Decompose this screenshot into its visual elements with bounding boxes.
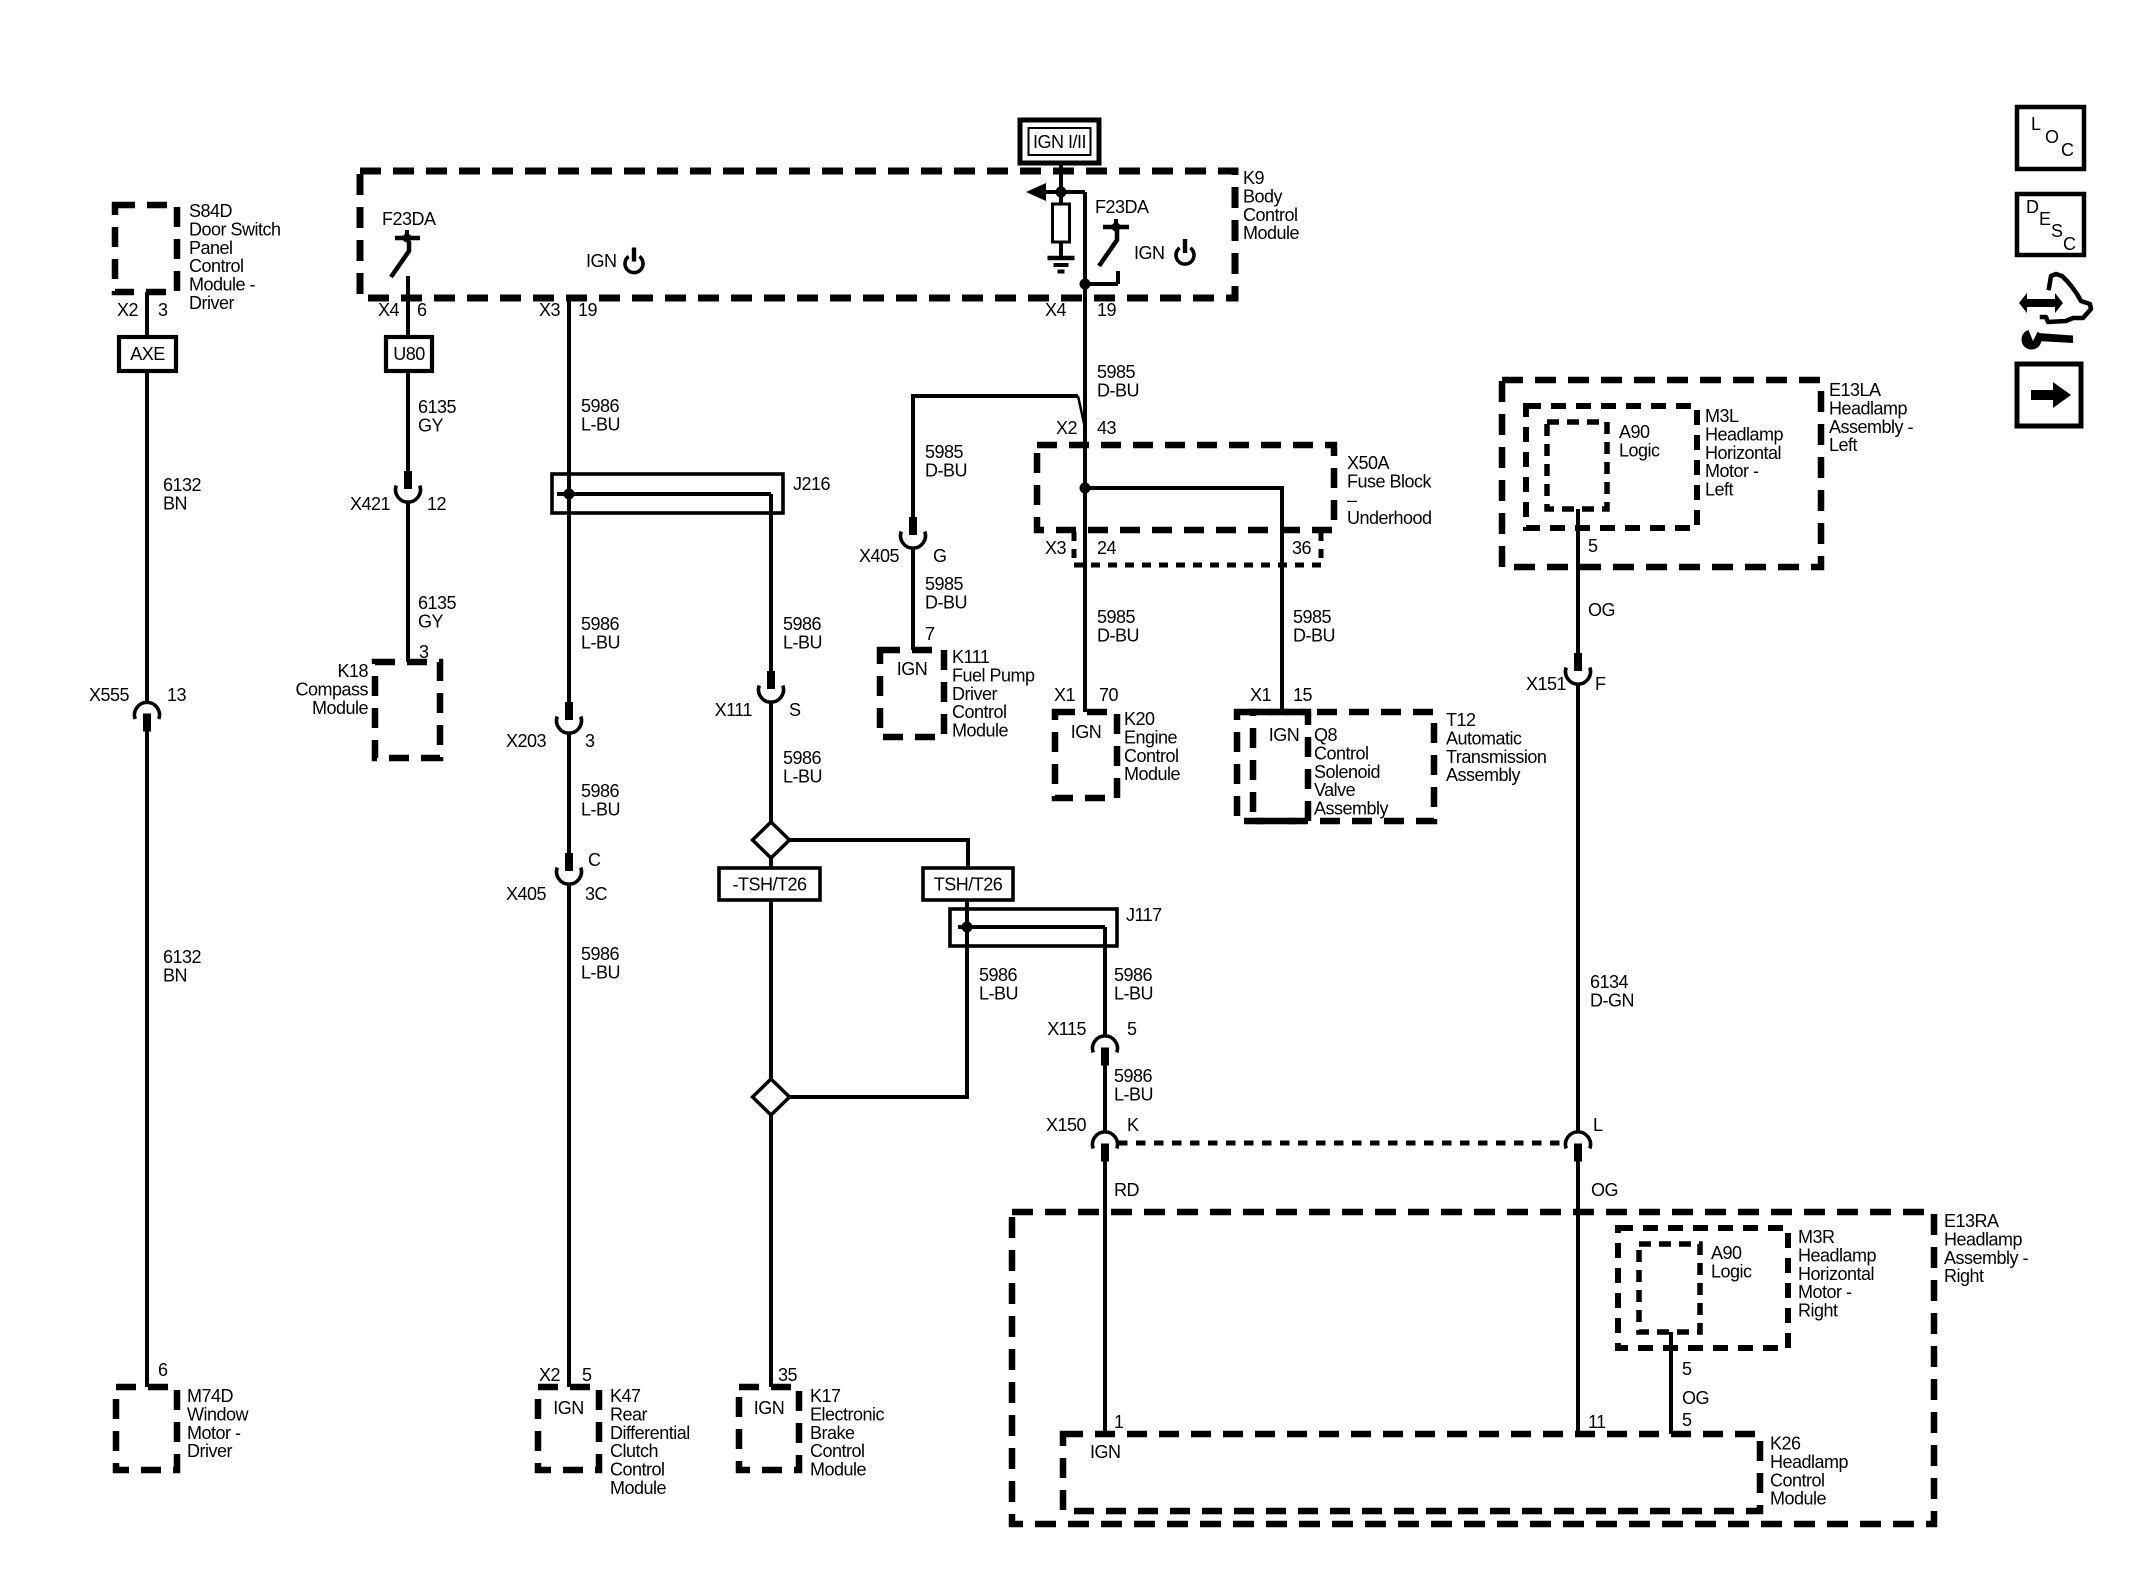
- module E13LA Headlamp Assembly - Left: [1502, 380, 1914, 567]
- wire X421 to K18: [406, 502, 410, 662]
- value label circuit 5986 L-BU: [783, 748, 822, 786]
- fuse inside K9: [1053, 192, 1070, 257]
- svg-text:E13RAHeadlampAssembly -Right: E13RAHeadlampAssembly -Right: [1944, 1211, 2029, 1286]
- value label circuit 5986 L-BU: [581, 781, 620, 819]
- pin label 7 of K111: [925, 624, 935, 644]
- svg-text:19: 19: [578, 300, 598, 320]
- svg-text:6: 6: [158, 1360, 168, 1380]
- svg-text:5: 5: [1682, 1410, 1692, 1430]
- value label circuit 6132 BN: [163, 475, 202, 513]
- svg-text:5985D-BU: 5985D-BU: [1097, 362, 1139, 400]
- value label circuit 5986 L-BU: [1114, 1066, 1153, 1104]
- wire fuse block X3-24 to K20: [1083, 488, 1087, 712]
- svg-text:X115: X115: [1047, 1019, 1086, 1039]
- svg-text:L: L: [1593, 1115, 1603, 1135]
- svg-text:X1: X1: [1250, 685, 1272, 705]
- node IGN I/II power tag: [1020, 120, 1099, 163]
- svg-text:U80: U80: [393, 344, 425, 364]
- svg-text:3C: 3C: [585, 884, 608, 904]
- svg-text:5: 5: [1588, 536, 1598, 556]
- connector X111 pin S: [715, 671, 801, 720]
- svg-text:M3LHeadlampHorizontalMotor -Le: M3LHeadlampHorizontalMotor -Left: [1705, 406, 1784, 500]
- module K47 Rear Differential Clutch Control Module: [538, 1386, 690, 1498]
- connector X405 pin 3C: [506, 853, 608, 904]
- module A90 Logic right: [1639, 1243, 1752, 1332]
- wire K9 X4-19 to fuse block: [1083, 284, 1087, 488]
- svg-text:5986L-BU: 5986L-BU: [783, 614, 822, 652]
- svg-text:X2: X2: [1056, 418, 1078, 438]
- svg-text:J117: J117: [1126, 905, 1162, 925]
- node splice diamond upper: [753, 822, 790, 858]
- wire S84D to AXE: [145, 292, 149, 337]
- svg-text:OG: OG: [1682, 1388, 1709, 1408]
- svg-text:1: 1: [1114, 1412, 1124, 1432]
- module Q8 connector box: [1237, 712, 1308, 821]
- svg-text:X1: X1: [1054, 685, 1076, 705]
- pin label 1 of K26: [1114, 1412, 1124, 1432]
- svg-text:X111: X111: [715, 700, 753, 720]
- svg-text:S: S: [789, 700, 801, 720]
- svg-text:35: 35: [778, 1365, 798, 1385]
- splice J216: [552, 474, 831, 513]
- svg-text:C: C: [2061, 140, 2074, 160]
- svg-text:IGN: IGN: [1134, 243, 1165, 263]
- svg-text:6: 6: [417, 300, 427, 320]
- svg-text:IGN: IGN: [553, 1398, 584, 1418]
- svg-text:X203: X203: [506, 731, 547, 751]
- svg-text:K: K: [1127, 1115, 1139, 1135]
- switch F23DA right: [1095, 197, 1149, 284]
- svg-text:5: 5: [1682, 1359, 1692, 1379]
- svg-text:X4: X4: [1045, 300, 1067, 320]
- svg-text:T12AutomaticTransmissionAssemb: T12AutomaticTransmissionAssembly: [1446, 710, 1546, 785]
- svg-text:IGN: IGN: [754, 1398, 785, 1418]
- svg-text:IGN: IGN: [1071, 722, 1102, 742]
- pin label 5 of K26: [1682, 1410, 1692, 1430]
- pin label X4 19 of K9: [1045, 300, 1117, 320]
- svg-text:Module: Module: [312, 698, 369, 718]
- wire X405 to K47: [567, 884, 571, 1387]
- wire K9 X3-19 to J216: [567, 296, 571, 513]
- wire IGN I/II into K9: [1059, 163, 1063, 192]
- connector X150 pin L: [1566, 1115, 1604, 1162]
- svg-text:36: 36: [1292, 538, 1312, 558]
- svg-text:6134D-GN: 6134D-GN: [1590, 972, 1634, 1010]
- svg-text:6132BN: 6132BN: [163, 947, 202, 985]
- value label circuit 6135 GY: [418, 593, 457, 631]
- value label circuit 6132 BN: [163, 947, 202, 985]
- svg-text:5986L-BU: 5986L-BU: [581, 781, 620, 819]
- wire J216 to X203: [567, 474, 571, 702]
- svg-text:D: D: [2026, 197, 2039, 217]
- module K111 Fuel Pump Driver Control Module: [880, 647, 1035, 741]
- svg-text:X4: X4: [378, 300, 400, 320]
- connector X555 pin 13: [89, 685, 187, 732]
- value label circuit 5986 L-BU: [581, 614, 620, 652]
- svg-text:IGN: IGN: [1090, 1442, 1121, 1462]
- wire X111 to splice diamond: [769, 702, 773, 824]
- svg-text:3: 3: [585, 731, 595, 751]
- svg-text:J216: J216: [793, 474, 831, 494]
- svg-text:X151: X151: [1526, 674, 1567, 694]
- wire X150 K to K26 pin 1: [1103, 1162, 1107, 1435]
- value label circuit 5985 D-BU: [1293, 607, 1335, 645]
- pin label X2 3 of S84D: [117, 300, 168, 320]
- svg-text:15: 15: [1293, 685, 1313, 705]
- module A90 Logic left: [1547, 422, 1660, 509]
- wire K9 X4-6 to U80: [406, 276, 410, 337]
- wire -TSH/T26 to diamond lower: [769, 900, 773, 1079]
- svg-text:7: 7: [925, 624, 935, 644]
- pin label 5 of M3L: [1588, 536, 1598, 556]
- node splice diamond lower: [753, 1079, 790, 1115]
- svg-text:70: 70: [1099, 685, 1119, 705]
- svg-text:5985D-BU: 5985D-BU: [1097, 607, 1139, 645]
- value label circuit 5986 L-BU: [783, 614, 822, 652]
- svg-text:X150: X150: [1046, 1115, 1087, 1135]
- wire J117 right leg to X115: [1103, 927, 1107, 1036]
- svg-text:K18: K18: [337, 661, 368, 681]
- connector X203 pin 3: [506, 702, 595, 751]
- svg-text:A90Logic: A90Logic: [1711, 1243, 1752, 1281]
- svg-text:K47RearDifferentialClutchContr: K47RearDifferentialClutchControlModule: [610, 1386, 690, 1498]
- svg-text:K17ElectronicBrakeControlModul: K17ElectronicBrakeControlModule: [810, 1386, 885, 1480]
- svg-text:S: S: [2051, 221, 2063, 241]
- svg-text:OG: OG: [1588, 600, 1615, 620]
- wire U80 to X421: [406, 371, 410, 471]
- wire branch to fuel pump: [913, 396, 1085, 517]
- wire X115 to X150: [1103, 1066, 1107, 1133]
- value label OG: [1591, 1180, 1618, 1200]
- svg-text:5986L-BU: 5986L-BU: [1114, 1066, 1153, 1104]
- pin label 5 of M3R: [1682, 1359, 1692, 1379]
- svg-text:M3RHeadlampHorizontalMotor -Ri: M3RHeadlampHorizontalMotor -Right: [1798, 1227, 1877, 1321]
- module K26 Headlamp Control Module: [1063, 1434, 1849, 1512]
- svg-text:-TSH/T26: -TSH/T26: [732, 875, 807, 895]
- wire TSH/T26 to J117: [965, 900, 969, 930]
- value label circuit 5986 L-BU: [581, 944, 620, 982]
- svg-text:L: L: [2031, 114, 2041, 134]
- value label circuit 5986 L-BU: [581, 396, 620, 434]
- value label OG: [1588, 600, 1615, 620]
- value label circuit 6134 D-GN: [1590, 972, 1634, 1010]
- value label circuit 5986 L-BU: [979, 965, 1018, 1003]
- connector X421 pin 12: [350, 471, 447, 514]
- module M3R Headlamp Horizontal Motor - Right: [1618, 1227, 1877, 1348]
- pin label 11 of K26: [1588, 1412, 1606, 1432]
- node AXE: [119, 337, 176, 371]
- svg-text:O: O: [2045, 127, 2059, 147]
- svg-text:12: 12: [427, 494, 447, 514]
- connector X150 pin K: [1046, 1115, 1139, 1162]
- wire inline connector X150 dotted link: [1118, 1141, 1565, 1146]
- module E13RA Headlamp Assembly - Right: [1012, 1211, 2029, 1524]
- value label circuit 6135 GY: [418, 397, 457, 435]
- pin label X1 70 of K20: [1054, 685, 1119, 705]
- pin label 3 of K18: [419, 642, 429, 662]
- svg-text:IGN I/II: IGN I/II: [1033, 132, 1086, 152]
- pin label C of X405: [588, 850, 601, 870]
- wire K9 internal right branch: [1080, 192, 1119, 290]
- value label circuit 5986 L-BU: [1114, 965, 1153, 1003]
- svg-text:X555: X555: [89, 685, 130, 705]
- svg-text:TSH/T26: TSH/T26: [934, 875, 1003, 895]
- value label circuit 5985 D-BU: [925, 574, 967, 612]
- svg-text:OG: OG: [1591, 1180, 1618, 1200]
- svg-text:5986L-BU: 5986L-BU: [581, 396, 620, 434]
- svg-text:19: 19: [1097, 300, 1117, 320]
- svg-text:5986L-BU: 5986L-BU: [783, 748, 822, 786]
- value label circuit 5985 D-BU: [1097, 362, 1139, 400]
- module K20 Engine Control Module: [1055, 709, 1181, 798]
- switch F23DA left: [382, 209, 436, 277]
- icon LOC box: [2017, 107, 2084, 169]
- svg-text:11: 11: [1588, 1412, 1606, 1432]
- module K17 Electronic Brake Control Module: [739, 1386, 885, 1480]
- svg-text:RD: RD: [1114, 1180, 1139, 1200]
- wire fuse block internal branch: [1080, 483, 1283, 566]
- svg-text:F: F: [1595, 674, 1606, 694]
- pin label X2 5 of K47: [539, 1365, 592, 1385]
- svg-text:6135GY: 6135GY: [418, 397, 457, 435]
- module S84D Door Switch Panel Control Module - Driver: [115, 201, 281, 313]
- pin label X2 43 of fuse block: [1056, 418, 1117, 438]
- svg-text:S84DDoor SwitchPanelControlMod: S84DDoor SwitchPanelControlModule -Drive…: [189, 201, 281, 313]
- pin label X4 6 of K9: [378, 300, 427, 320]
- module K9 Body Control Module: [360, 168, 1300, 298]
- svg-text:X3: X3: [539, 300, 561, 320]
- wire AXE to X555: [145, 371, 149, 702]
- svg-text:K26HeadlampControlModule: K26HeadlampControlModule: [1770, 1434, 1849, 1509]
- node -TSH/T26: [719, 868, 820, 900]
- node TSH/T26: [923, 868, 1013, 900]
- module M3L Headlamp Horizontal Motor - Left: [1526, 406, 1784, 528]
- svg-text:X3: X3: [1045, 538, 1067, 558]
- svg-text:F23DA: F23DA: [1095, 197, 1149, 217]
- svg-text:E13LAHeadlampAssembly -Left: E13LAHeadlampAssembly -Left: [1829, 380, 1914, 455]
- icon goto arrow box: [2017, 364, 2081, 426]
- svg-text:5985D-BU: 5985D-BU: [1293, 607, 1335, 645]
- svg-text:6135GY: 6135GY: [418, 593, 457, 631]
- svg-text:5986L-BU: 5986L-BU: [1114, 965, 1153, 1003]
- svg-text:Q8ControlSolenoidValveAssembly: Q8ControlSolenoidValveAssembly: [1314, 725, 1389, 819]
- svg-text:3: 3: [158, 300, 168, 320]
- wire J216 to X111: [769, 494, 773, 671]
- svg-text:13: 13: [167, 685, 187, 705]
- connector X151 pin F: [1526, 653, 1606, 694]
- wire diamond lower to K17: [769, 1115, 773, 1387]
- module T12 Automatic Transmission Assembly with Q8 Control Solenoid Valve Assembly: [1253, 710, 1546, 821]
- svg-text:Compass: Compass: [295, 679, 368, 699]
- wire A90 pin 5 to X151: [1576, 509, 1580, 653]
- svg-text:5986L-BU: 5986L-BU: [581, 944, 620, 982]
- svg-text:X50AFuse Block–Underhood: X50AFuse Block–Underhood: [1347, 453, 1433, 528]
- value label OG: [1682, 1388, 1709, 1408]
- svg-text:C: C: [588, 850, 601, 870]
- svg-text:5: 5: [582, 1365, 592, 1385]
- svg-text:E: E: [2039, 209, 2051, 229]
- svg-text:5: 5: [1127, 1019, 1137, 1039]
- svg-text:5985D-BU: 5985D-BU: [925, 442, 967, 480]
- svg-text:X421: X421: [350, 494, 391, 514]
- svg-text:43: 43: [1097, 418, 1117, 438]
- splice J117: [950, 905, 1162, 946]
- pin label X1 15 of Q8: [1250, 685, 1313, 705]
- svg-text:AXE: AXE: [130, 344, 165, 364]
- svg-text:A90Logic: A90Logic: [1619, 422, 1660, 460]
- wire X203 to X405: [567, 733, 571, 853]
- ground: [1048, 258, 1075, 272]
- svg-text:G: G: [933, 546, 947, 566]
- wire X405 G to K111: [911, 548, 915, 650]
- svg-text:X405: X405: [859, 546, 900, 566]
- value label circuit 5985 D-BU: [925, 442, 967, 480]
- wire internal feed with arrow: [1026, 183, 1085, 201]
- svg-text:5986L-BU: 5986L-BU: [581, 614, 620, 652]
- module K18 Compass Module: [295, 661, 440, 758]
- wire fuse block X3-36 to Q8: [1280, 565, 1284, 712]
- svg-text:IGN: IGN: [586, 251, 617, 271]
- wire X151 to X150-L: [1576, 684, 1580, 1132]
- pin label 35 of K17: [778, 1365, 798, 1385]
- svg-text:F23DA: F23DA: [382, 209, 436, 229]
- wire -TSH/T26 branch: [769, 858, 773, 868]
- svg-text:5986L-BU: 5986L-BU: [979, 965, 1018, 1003]
- node U80: [386, 337, 432, 371]
- wire A90 right pin 5 to K26 pin 5: [1669, 1332, 1673, 1434]
- wire X150 L to K26 pin 11: [1576, 1162, 1580, 1435]
- wire J117 left leg to diamond lower: [790, 927, 968, 1097]
- value label RD: [1114, 1180, 1139, 1200]
- svg-text:IGN: IGN: [1269, 725, 1300, 745]
- pin label X3 19 of K9: [539, 300, 598, 320]
- module X50A Fuse Block - Underhood: [1037, 445, 1433, 530]
- svg-text:X2: X2: [539, 1365, 561, 1385]
- svg-text:IGN: IGN: [897, 659, 928, 679]
- pin label 6 of M74D: [158, 1360, 168, 1380]
- svg-text:C: C: [2063, 234, 2076, 254]
- icon DESC box: [2017, 194, 2084, 255]
- connector X405 pin G: [859, 517, 947, 566]
- svg-text:X405: X405: [506, 884, 547, 904]
- wire diamond to TSH/T26: [790, 840, 969, 868]
- connector X115 pin 5: [1047, 1019, 1137, 1066]
- icon service arrow and wrench: [2019, 274, 2091, 350]
- value label circuit 5985 D-BU: [1097, 607, 1139, 645]
- svg-text:K9BodyControlModule: K9BodyControlModule: [1243, 168, 1300, 243]
- svg-text:5985D-BU: 5985D-BU: [925, 574, 967, 612]
- svg-text:6132BN: 6132BN: [163, 475, 202, 513]
- svg-text:X2: X2: [117, 300, 139, 320]
- module M74D Window Motor - Driver: [116, 1386, 250, 1470]
- label IGN power right: [1134, 239, 1194, 264]
- label IGN power left: [586, 248, 643, 273]
- svg-text:M74DWindowMotor -Driver: M74DWindowMotor -Driver: [187, 1386, 250, 1461]
- svg-text:K20EngineControlModule: K20EngineControlModule: [1124, 709, 1181, 784]
- svg-text:24: 24: [1097, 538, 1117, 558]
- wire X555 to M74D: [145, 732, 149, 1388]
- svg-text:K111Fuel PumpDriverControlModu: K111Fuel PumpDriverControlModule: [952, 647, 1035, 741]
- connector X3 strip of fuse block: [1045, 532, 1321, 565]
